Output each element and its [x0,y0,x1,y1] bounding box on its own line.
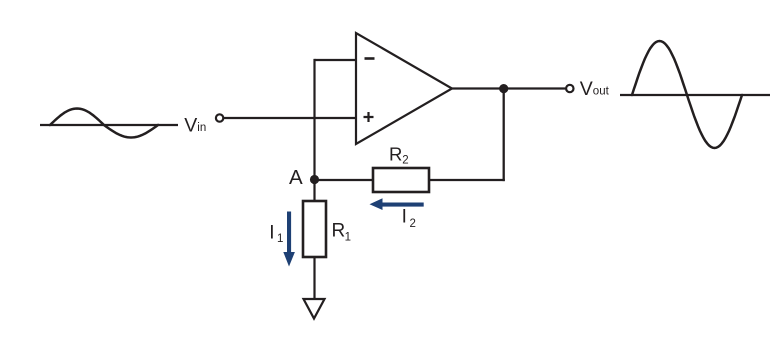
input waveform axis [40,124,178,126]
svg-text:1: 1 [277,233,283,245]
output terminal Vout open circle [566,85,573,92]
svg-text:out: out [593,86,610,98]
op-amp minus pin symbol [365,57,375,60]
svg-text:R: R [389,144,402,165]
wire op-amp output to Vout terminal [452,87,566,89]
resistor R1 body [303,201,326,257]
junction dot at output node [499,84,508,93]
node A junction dot [310,175,319,184]
op-amp plus pin symbol [364,112,374,122]
current arrow I2 (left) [381,203,424,207]
op-amp U1 triangle [356,33,452,144]
svg-text:V: V [580,78,593,100]
svg-text:2: 2 [410,218,416,230]
wire node A down to R1 [313,180,315,201]
wire Vin terminal to op-amp + input [223,117,356,119]
wire R1 to ground [313,257,315,299]
svg-text:2: 2 [402,155,408,167]
wire feedback horizontal to R2 [429,179,505,181]
resistor R2 body [373,168,429,192]
wire R2 to node A [315,179,374,181]
output waveform axis [620,94,770,96]
svg-text:I: I [402,206,407,227]
svg-text:1: 1 [345,231,351,243]
svg-text:R: R [332,221,346,242]
svg-text:I: I [269,223,274,244]
wire vertical from inverting input down to node A [313,59,315,180]
svg-text:V: V [184,114,197,136]
wire inverting input horizontal [315,59,357,61]
output sine wave [632,41,742,148]
wire feedback vertical from output node [503,89,505,182]
svg-text:A: A [289,166,303,189]
svg-text:in: in [197,122,206,134]
ground symbol [304,299,325,319]
current arrow I1 (down) [287,212,291,254]
input sine wave [50,109,158,138]
input terminal Vin open circle [216,114,223,121]
